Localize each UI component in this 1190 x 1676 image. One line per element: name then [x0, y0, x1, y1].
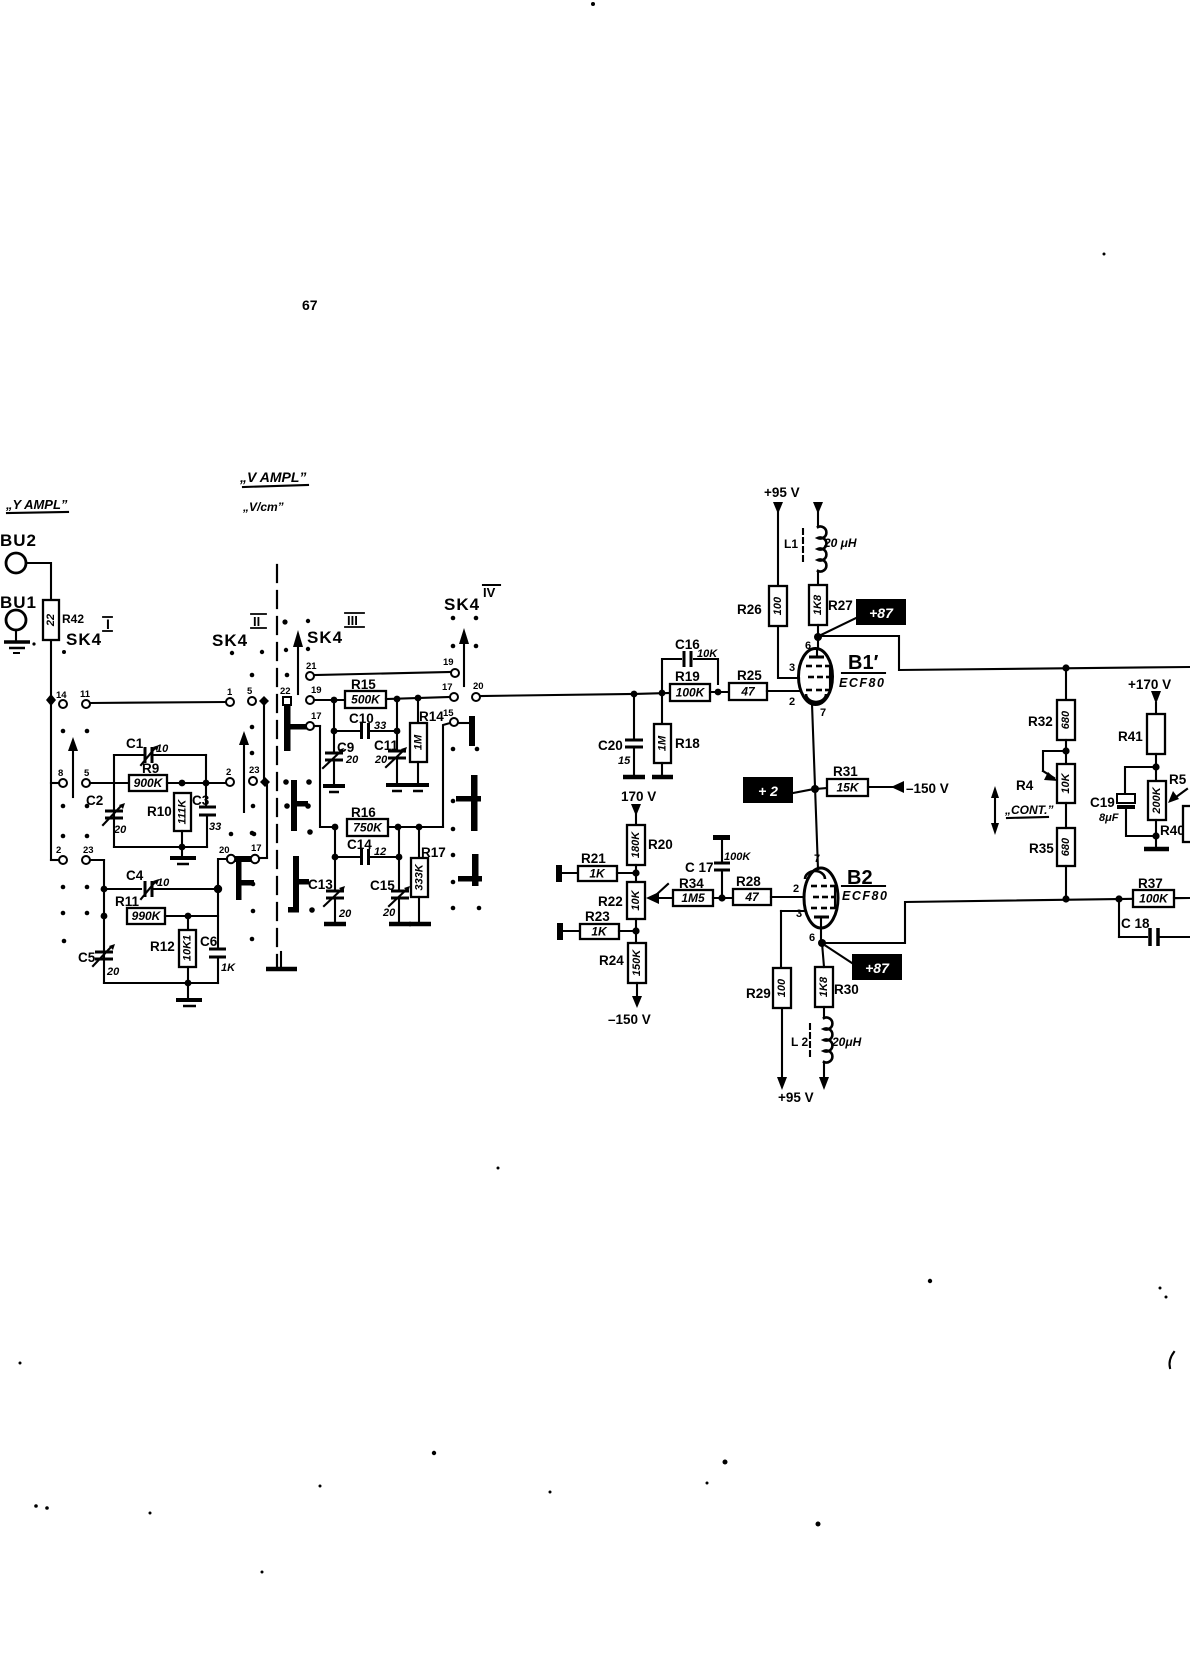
svg-text:100K: 100K: [676, 686, 706, 700]
svg-text:C3: C3: [192, 793, 210, 808]
svg-text:R12: R12: [150, 939, 175, 954]
svg-text:10K: 10K: [697, 648, 718, 660]
svg-text:17: 17: [251, 843, 262, 854]
svg-text:33: 33: [374, 720, 386, 732]
svg-text:R17: R17: [421, 845, 446, 860]
svg-text:19: 19: [311, 685, 322, 696]
svg-text:1K8: 1K8: [812, 594, 824, 615]
svg-text:1K: 1K: [221, 962, 236, 974]
svg-text:R23: R23: [585, 909, 610, 924]
svg-text:100K: 100K: [1139, 892, 1169, 906]
svg-text:8μF: 8μF: [1099, 812, 1119, 824]
svg-text:20: 20: [219, 845, 230, 856]
svg-text:R14: R14: [419, 709, 444, 724]
svg-text:R41: R41: [1118, 729, 1143, 744]
svg-text:2: 2: [226, 767, 231, 778]
svg-text:990K: 990K: [132, 909, 162, 923]
svg-text:C1: C1: [126, 736, 144, 751]
svg-text:R37: R37: [1138, 876, 1163, 891]
svg-text:22: 22: [280, 686, 291, 697]
svg-text:10K1: 10K1: [182, 935, 194, 961]
svg-text:SK4: SK4: [307, 628, 343, 647]
svg-text:R21: R21: [581, 851, 606, 866]
svg-text:1M5: 1M5: [681, 891, 705, 905]
svg-text:20: 20: [338, 908, 352, 920]
svg-text:12: 12: [374, 846, 386, 858]
svg-text:1M: 1M: [657, 735, 669, 751]
svg-text:IV: IV: [483, 585, 496, 600]
svg-text:1K: 1K: [591, 925, 608, 939]
svg-text:C15: C15: [370, 878, 395, 893]
svg-text:R9: R9: [142, 761, 159, 776]
svg-text:10: 10: [156, 743, 169, 755]
svg-text:+95 V: +95 V: [778, 1090, 814, 1105]
svg-text:C19: C19: [1090, 795, 1115, 810]
svg-text:R42: R42: [62, 612, 84, 626]
svg-text:5: 5: [247, 686, 253, 697]
svg-text:170 V: 170 V: [621, 789, 656, 804]
svg-text:111K: 111K: [177, 799, 189, 825]
svg-text:C14: C14: [347, 837, 372, 852]
svg-text:L 2: L 2: [791, 1035, 808, 1049]
svg-text:900K: 900K: [134, 776, 164, 790]
svg-text:2: 2: [789, 696, 795, 708]
svg-text:20: 20: [113, 824, 127, 836]
svg-text:15: 15: [443, 708, 454, 719]
svg-text:23: 23: [83, 845, 94, 856]
svg-text:20 μH: 20 μH: [823, 536, 857, 550]
svg-text:R24: R24: [599, 953, 624, 968]
svg-text:100: 100: [776, 978, 788, 997]
svg-text:11: 11: [80, 689, 91, 700]
svg-text:17: 17: [311, 711, 322, 722]
svg-text:R29: R29: [746, 986, 771, 1001]
svg-text:150K: 150K: [631, 949, 643, 976]
svg-text:C4: C4: [126, 868, 144, 883]
svg-text:„V/cm”: „V/cm”: [242, 500, 284, 514]
svg-text:III: III: [347, 613, 358, 628]
svg-text:333K: 333K: [414, 863, 426, 890]
svg-text:–150 V: –150 V: [608, 1012, 651, 1027]
svg-text:R16: R16: [351, 805, 376, 820]
svg-text:–150 V: –150 V: [906, 781, 949, 796]
svg-text:„V AMPL”: „V AMPL”: [239, 469, 306, 485]
svg-text:C5: C5: [78, 950, 96, 965]
svg-text:750K: 750K: [353, 821, 383, 835]
svg-text:20μH: 20μH: [831, 1035, 862, 1049]
svg-text:6: 6: [805, 640, 811, 652]
svg-text:ECF80: ECF80: [842, 889, 888, 903]
svg-text:C 17: C 17: [685, 860, 714, 875]
svg-text:R31: R31: [833, 764, 858, 779]
svg-text:R4: R4: [1016, 778, 1034, 793]
svg-text:C20: C20: [598, 738, 623, 753]
svg-text:R32: R32: [1028, 714, 1053, 729]
svg-text:C13: C13: [308, 877, 333, 892]
svg-text:67: 67: [302, 297, 318, 313]
svg-text:R26: R26: [737, 602, 762, 617]
svg-text:33: 33: [209, 821, 221, 833]
svg-text:C2: C2: [86, 793, 103, 808]
svg-text:7: 7: [820, 707, 826, 719]
svg-text:R10: R10: [147, 804, 172, 819]
svg-text:17: 17: [442, 682, 453, 693]
svg-text:B1′: B1′: [848, 652, 879, 674]
svg-text:+87: +87: [865, 960, 890, 976]
svg-text:21: 21: [306, 661, 317, 672]
svg-text:680: 680: [1060, 710, 1072, 729]
svg-text:R22: R22: [598, 894, 623, 909]
svg-text:1: 1: [227, 687, 233, 698]
svg-text:C11: C11: [374, 738, 399, 753]
svg-text:I: I: [106, 616, 110, 632]
svg-text:680: 680: [1060, 837, 1072, 856]
svg-text:C9: C9: [337, 740, 354, 755]
svg-text:SK4: SK4: [444, 595, 480, 614]
svg-text:47: 47: [744, 890, 760, 904]
svg-text:100K: 100K: [724, 851, 751, 863]
svg-text:„Y AMPL”: „Y AMPL”: [5, 497, 68, 512]
svg-text:R19: R19: [675, 669, 700, 684]
svg-text:1M: 1M: [413, 734, 425, 750]
svg-text:„CONT.”: „CONT.”: [1004, 803, 1053, 817]
svg-text:20: 20: [382, 907, 396, 919]
svg-text:R30: R30: [834, 982, 859, 997]
svg-text:47: 47: [740, 685, 756, 699]
svg-text:R28: R28: [736, 874, 761, 889]
svg-text:6: 6: [809, 932, 815, 944]
svg-text:R34: R34: [679, 876, 704, 891]
svg-text:2: 2: [56, 845, 61, 856]
svg-text:L1: L1: [784, 537, 798, 551]
svg-text:+ 2: + 2: [758, 783, 778, 799]
svg-text:+170 V: +170 V: [1128, 677, 1171, 692]
svg-text:10K: 10K: [1060, 772, 1072, 793]
svg-text:R15: R15: [351, 677, 376, 692]
svg-text:R35: R35: [1029, 841, 1054, 856]
svg-text:SK4: SK4: [66, 630, 102, 649]
svg-text:3: 3: [796, 908, 802, 920]
svg-text:20: 20: [106, 966, 120, 978]
svg-text:R20: R20: [648, 837, 673, 852]
svg-text:19: 19: [443, 657, 454, 668]
svg-text:20: 20: [374, 754, 388, 766]
svg-text:R11: R11: [115, 894, 140, 909]
svg-text:1K: 1K: [589, 867, 606, 881]
svg-text:C10: C10: [349, 711, 374, 726]
svg-text:BU2: BU2: [0, 531, 37, 550]
svg-text:SK4: SK4: [212, 631, 248, 650]
svg-text:R18: R18: [675, 736, 700, 751]
svg-text:C6: C6: [200, 934, 218, 949]
svg-text:+87: +87: [869, 605, 894, 621]
svg-text:15: 15: [618, 755, 631, 767]
svg-text:200K: 200K: [1151, 786, 1163, 814]
svg-text:3: 3: [789, 662, 795, 674]
svg-text:14: 14: [56, 690, 67, 701]
svg-text:R27: R27: [828, 598, 853, 613]
svg-text:ECF80: ECF80: [839, 676, 885, 690]
svg-text:15K: 15K: [836, 781, 859, 795]
svg-text:8: 8: [58, 768, 63, 779]
svg-text:500K: 500K: [351, 693, 381, 707]
svg-text:23: 23: [249, 765, 260, 776]
svg-text:1K8: 1K8: [818, 976, 830, 997]
svg-text:20: 20: [345, 754, 359, 766]
svg-text:20: 20: [473, 681, 484, 692]
svg-text:C 18: C 18: [1121, 916, 1150, 931]
svg-text:180K: 180K: [630, 831, 642, 858]
svg-text:10: 10: [157, 877, 170, 889]
svg-text:R40: R40: [1160, 823, 1185, 838]
svg-text:10K: 10K: [630, 889, 642, 910]
svg-text:7: 7: [814, 853, 820, 865]
svg-text:R25: R25: [737, 668, 762, 683]
svg-text:+95 V: +95 V: [764, 485, 800, 500]
svg-text:100: 100: [772, 596, 784, 615]
svg-text:2: 2: [793, 883, 799, 895]
svg-text:22: 22: [45, 614, 57, 627]
svg-text:5: 5: [84, 768, 90, 779]
svg-text:II: II: [253, 614, 260, 629]
svg-text:R5: R5: [1169, 772, 1187, 787]
